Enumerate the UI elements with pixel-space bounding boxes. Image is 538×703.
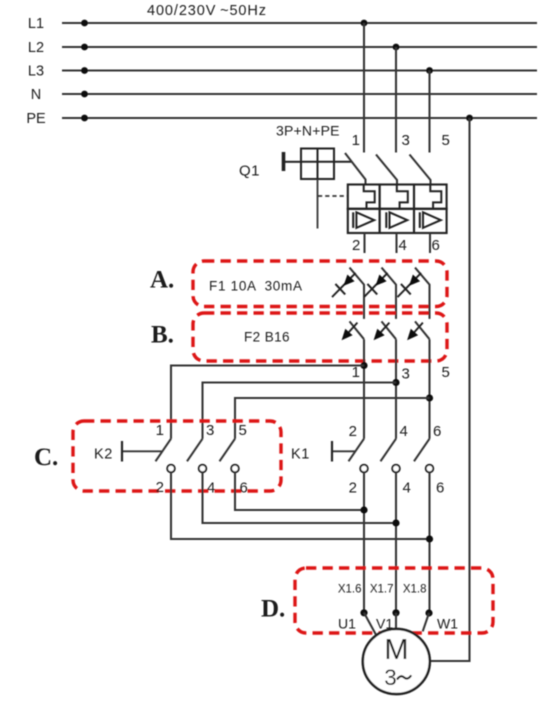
K2 pole 1 blade [156,439,172,462]
svg-text:X1.7: X1.7 [370,584,394,596]
K2 actuator bar [121,441,123,462]
node L3 tap [426,67,433,74]
Q1 link to pole 1 [334,161,352,163]
svg-text:1: 1 [352,364,360,381]
svg-text:Q1: Q1 [239,163,260,180]
Q1 thermal cell 3 [414,185,447,209]
region D box [295,568,493,633]
wire net1 to K2 pole1 [171,366,364,439]
Q1 dashed linkage [318,195,348,197]
svg-text:L2: L2 [28,40,44,56]
svg-text:4: 4 [403,480,411,497]
Q1 box horizontal divider [301,161,334,163]
F1 pole 2 cross tick [367,284,377,295]
F1 pole 3 release arrow [398,273,422,297]
node net3 junction [392,379,399,386]
K2 pole 2 blade [187,439,203,462]
svg-text:400/230V ~50Hz: 400/230V ~50Hz [147,3,267,19]
svg-text:D.: D. [261,596,285,623]
K1 pole 3 blade [414,439,430,462]
svg-text:6: 6 [240,480,248,497]
F2 pole 2 blade [382,321,397,339]
F1 pole 2 arrowhead [376,275,387,286]
Q1 thermal element 2 [397,185,408,209]
svg-text:5: 5 [442,132,450,149]
Q1 box vertical divider [317,149,319,180]
wire PE down to motor frame [430,118,470,661]
Q1 thermal cell 1 [348,185,380,209]
svg-text:L1: L1 [28,16,44,32]
svg-text:1: 1 [156,422,164,439]
K1 pole 2 contact [392,465,400,473]
wire Q1 out pole 1 [363,233,365,253]
Q1 magnetic bar 2 [385,212,387,228]
Q1 pole 1 blade [345,153,366,185]
K1 actuator link [333,450,356,452]
F2 pole 3 blade [415,321,430,339]
wire K1 pole2 down [395,472,397,613]
svg-text:2: 2 [156,479,164,496]
svg-text:W1: W1 [437,616,458,632]
K2 pole 3 contact [231,465,239,473]
K2 pole 1 contact [167,465,175,473]
wire K2 pole2 to K1 pole2 [203,472,397,523]
svg-text:M: M [384,634,408,666]
feed dot L3 [81,67,88,74]
node crossover b [392,519,399,526]
K1 pole 2 blade [381,439,397,462]
K1 actuator bar [331,441,333,462]
F1 pole 3 arrowhead [409,275,420,286]
feed dot PE [81,115,88,122]
region A box [193,261,447,307]
svg-text:3: 3 [206,422,214,439]
Q1 magnetic release 2 [390,212,408,228]
svg-text:X1.6: X1.6 [338,584,362,596]
Q1 thermal cell 2 [380,185,414,209]
wire net1 down to K1 [363,339,365,439]
K1 pole 1 blade [349,439,365,462]
svg-text:2: 2 [349,480,357,497]
Q1 magnetic cell 1 [348,209,380,233]
Q1 operator box [301,149,334,180]
node L1 tap [361,20,368,27]
svg-text:5: 5 [239,422,247,439]
svg-text:1: 1 [352,132,360,149]
Q1 actuator stem [317,179,319,229]
supply rail PE [62,117,537,119]
wire net5 to K2 pole3 [235,398,430,439]
Q1 magnetic bar 1 [352,212,354,228]
motor M1 body [363,629,430,694]
svg-text:X1.8: X1.8 [403,584,427,596]
Q1 handle link [285,161,301,163]
node crossover c [426,535,433,542]
supply rail L1 [62,22,537,24]
Q1 magnetic release 1 [356,212,374,228]
svg-text:A.: A. [150,267,174,294]
svg-text:3P+N+PE: 3P+N+PE [276,123,340,139]
node U1 terminal [360,609,367,616]
K1 pole 1 contact [360,465,368,473]
Q1 magnetic cell 2 [380,209,414,233]
F1 pole 1 release arrow [332,273,356,297]
svg-text:3: 3 [384,665,397,690]
svg-text:4: 4 [207,480,215,497]
K1 pole 3 contact [426,465,434,473]
wire K1 pole1 down [363,472,365,613]
wire K1 pole3 down [428,472,430,613]
node V1 terminal [392,609,399,616]
Q1 magnetic release 3 [423,212,441,228]
feed dot N [81,91,88,98]
F2 pole 2 release arrow [377,323,390,337]
F1 pole 1 blade [350,268,365,319]
Q1 pole 2 blade [376,155,397,186]
F1 pole 3 cross tick [401,284,411,295]
wire L3 drop [428,71,430,153]
region B box [193,313,447,361]
F1 pole 2 blade [382,268,397,319]
node crossover a [360,506,367,513]
wire W1 to motor [423,613,429,631]
F2 pole 1 arrowhead [342,329,353,341]
node W1 terminal [425,609,432,616]
svg-text:N: N [31,87,41,103]
wire net3 to K2 pole2 [203,383,397,439]
supply rail N [62,93,537,95]
svg-text:K2: K2 [94,447,113,463]
svg-text:F2 B16: F2 B16 [244,330,290,345]
Q1 pole 3 blade [410,155,431,186]
F2 pole 1 release arrow [345,323,358,337]
svg-text:3: 3 [402,132,410,149]
wire net5 down to K1 [428,339,430,439]
F1 pole 1 cross tick [335,284,345,295]
F2 pole 2 arrowhead [374,329,385,341]
Q1 thermal element 1 [364,185,375,209]
svg-text:B.: B. [151,322,174,349]
node PE tap [466,115,473,122]
F2 pole 1 blade [350,321,365,339]
feed dot L2 [81,44,88,51]
svg-text:3: 3 [402,366,410,383]
svg-text:5: 5 [442,364,450,381]
supply rail L2 [62,46,537,48]
svg-text:2: 2 [352,237,360,254]
K2 actuator link [123,450,162,452]
Q1 magnetic bar 3 [419,212,421,228]
supply rail L3 [62,70,537,72]
wire U1 to motor [364,613,378,638]
region C box [73,421,281,491]
feed dot L1 [81,20,88,27]
F1 pole 3 blade [415,268,430,319]
svg-text:C.: C. [34,444,58,471]
svg-text:6: 6 [433,423,441,440]
wire K2 pole1 to K1 pole3 [171,472,430,539]
svg-text:K1: K1 [291,447,310,463]
wire L1 drop [363,23,365,153]
svg-text:6: 6 [432,237,440,254]
node L2 tap [393,44,400,51]
wire K2 pole3 to K1 pole1 [235,472,364,510]
Q1 thermal element 3 [430,185,441,209]
wire Q1 out pole 2 [395,233,397,253]
svg-text:L3: L3 [28,63,44,79]
F1 pole 2 release arrow [364,273,388,297]
Q1 magnetic cell 3 [414,209,447,233]
F2 pole 3 release arrow [410,323,423,337]
Q1 handle bar [282,152,286,171]
svg-text:F1 10A 30mA: F1 10A 30mA [209,279,303,294]
F1 pole 1 arrowhead [344,275,355,286]
node net5 junction [426,394,433,401]
svg-text:PE: PE [26,111,46,127]
node net1 junction [360,362,367,369]
svg-text:U1: U1 [338,616,356,632]
K2 pole 3 blade [220,439,236,462]
svg-text:2: 2 [349,423,357,440]
wire V1 to motor [395,613,397,629]
wire net3 down to K1 [395,339,397,439]
wire Q1 out pole 3 [429,233,431,253]
svg-text:6: 6 [436,480,444,497]
svg-text:4: 4 [400,423,408,440]
F2 pole 3 arrowhead [407,329,418,341]
wire L2 drop [395,47,397,153]
K2 pole 2 contact [199,465,207,473]
svg-text:4: 4 [399,237,407,254]
